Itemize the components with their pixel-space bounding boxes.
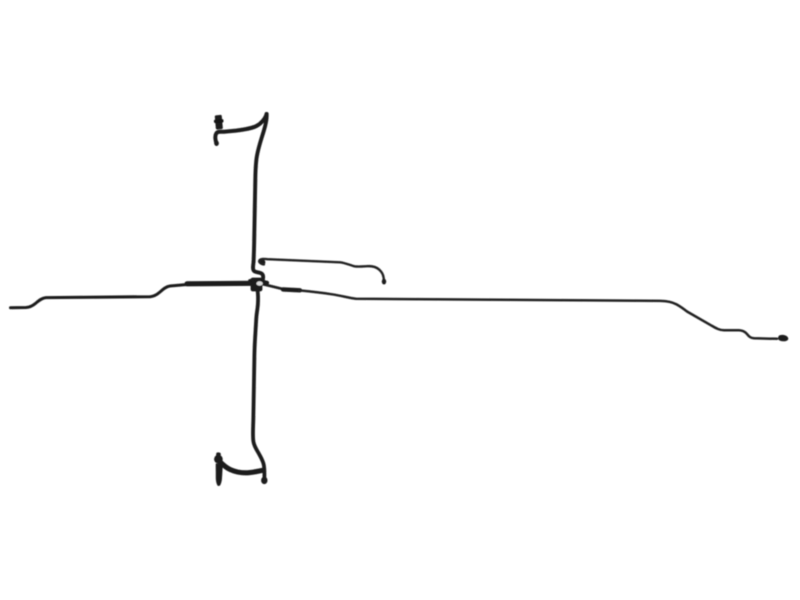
fitting: bottom connector body [216,464,223,487]
tube: lower vertical [253,291,264,478]
tube: S-bend into junction [253,262,263,281]
junction: small leftward nub [250,279,255,280]
sleeve: on diagonal right of junction [283,287,300,292]
fitting: right end connector [778,335,788,341]
junction: right lobe [260,280,267,285]
tube: long right line [299,290,777,338]
fitting: top quick-connect flange band [214,119,224,123]
fitting: top quick-connect body [213,115,224,130]
fitting: top end rounded cap [214,140,219,146]
tube: upper branch hook end [260,260,266,266]
tube: diagonal from junction to long right line [260,284,284,290]
tube: top hook horizontal into peak [215,114,266,144]
junction: upper stub [253,280,268,282]
fitting: upper branch end tip [382,279,386,285]
fitting: bottom knob top nub [216,452,221,457]
junction: central clamp block [251,278,263,292]
junction: clamp window (light notch) [256,281,262,285]
fitting: bottom hook knob [214,455,223,464]
tube: upper vertical from peak down [254,114,267,262]
fitting: lower vertical end cap [261,477,267,484]
sleeve: left main line thick section [187,281,252,287]
tube: bottom hook [220,461,263,473]
tube: upper branch to small connector [259,259,384,280]
tube: left main line [11,284,191,308]
